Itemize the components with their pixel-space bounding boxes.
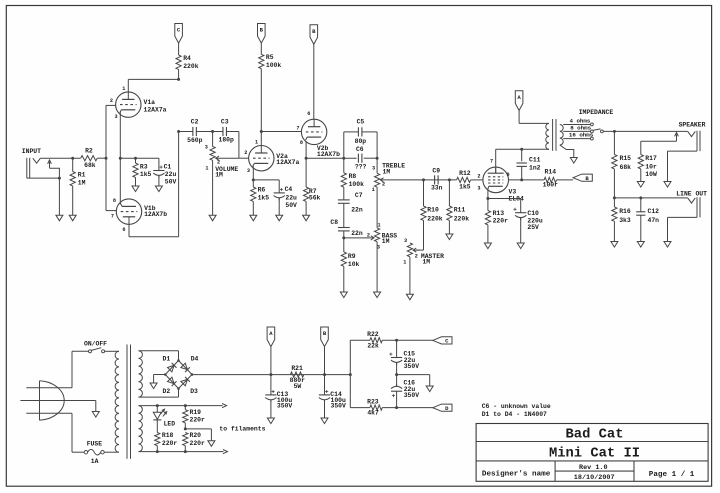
svg-text:6: 6 — [122, 227, 125, 233]
capacitor C10 — [513, 199, 542, 244]
node C11 top — [520, 148, 523, 151]
node R11 top — [448, 178, 451, 181]
wire pole to speaker — [603, 130, 687, 132]
wire mains earth prong — [20, 401, 95, 412]
svg-text:1: 1 — [205, 166, 208, 172]
pin 8 V1b — [113, 198, 116, 204]
svg-text:33n: 33n — [431, 184, 443, 191]
svg-text:1k5: 1k5 — [459, 183, 471, 190]
capacitor C14 — [319, 375, 346, 418]
svg-text:LINE OUT: LINE OUT — [676, 190, 707, 197]
svg-text:R14: R14 — [545, 168, 557, 175]
resistor R17 — [638, 141, 657, 181]
pin 2 V1a — [110, 98, 113, 104]
svg-text:18/10/2007: 18/10/2007 — [574, 474, 615, 482]
diode D1 — [163, 356, 177, 372]
svg-text:R5: R5 — [266, 54, 274, 61]
resistor R4 — [176, 43, 199, 79]
potentiometer MASTER — [407, 243, 444, 294]
wire C5 loop — [344, 132, 377, 158]
node R10 top — [422, 178, 425, 181]
potentiometer BASS — [368, 228, 398, 292]
capacitor C9 — [431, 167, 443, 191]
wire cathode follower out — [306, 157, 357, 159]
svg-text:1: 1 — [122, 86, 125, 92]
svg-text:C10: C10 — [527, 210, 539, 217]
wire C2 to C3 — [196, 131, 223, 133]
resistor R7 — [304, 158, 321, 215]
capacitor C6 — [355, 146, 367, 170]
terminal C filter — [433, 337, 452, 345]
node plate/C2 — [177, 130, 180, 133]
svg-text:2: 2 — [244, 150, 247, 156]
resistor R1 — [70, 158, 86, 215]
title Mini Cat II — [549, 445, 640, 461]
ground R7 — [303, 215, 310, 221]
transformer OT core — [553, 119, 556, 151]
wire HT bottom to bridge — [139, 389, 179, 398]
pin 2 TREBLE — [382, 181, 385, 187]
wire input tip to R2 — [40, 157, 80, 159]
pin 7 V1b — [111, 213, 114, 219]
resistor R14 — [543, 168, 559, 188]
svg-text:22n: 22n — [351, 206, 363, 213]
svg-text:10r: 10r — [645, 163, 657, 170]
svg-text:C1: C1 — [164, 163, 172, 170]
svg-text:R8: R8 — [349, 173, 357, 180]
wire V1a grid — [106, 104, 116, 106]
wire V1b grid — [106, 210, 116, 212]
wire heater bottom — [139, 449, 228, 453]
ground OT secondary — [570, 158, 577, 164]
ground R9 — [340, 292, 347, 298]
svg-text:100k: 100k — [266, 62, 282, 69]
node cathode/R3 — [134, 157, 137, 160]
svg-text:C8: C8 — [330, 219, 338, 226]
pin 6 V1b — [122, 227, 125, 233]
ground C14 — [321, 418, 328, 424]
ground R6 — [250, 215, 257, 221]
wire R22 to C — [382, 339, 433, 342]
pin 7 V2b — [296, 125, 299, 131]
wire V3 plate to OT — [496, 149, 546, 173]
wire line out row — [613, 196, 688, 199]
svg-text:22k: 22k — [367, 343, 379, 350]
svg-text:350V: 350V — [277, 403, 293, 410]
svg-text:3: 3 — [377, 244, 380, 250]
contact 16 ohms — [591, 137, 594, 140]
svg-text:1: 1 — [255, 140, 258, 146]
resistor R20 — [183, 432, 205, 452]
wire jack sleeve — [27, 177, 61, 216]
pin 1 V2a — [255, 140, 258, 146]
svg-text:R9: R9 — [348, 253, 356, 260]
svg-text:68k: 68k — [84, 162, 96, 169]
svg-text:C3: C3 — [221, 118, 229, 125]
svg-text:IMPEDANCE: IMPEDANCE — [579, 109, 614, 116]
terminal D filter — [433, 404, 452, 412]
wire heater top — [139, 403, 227, 407]
capacitor C2 — [187, 118, 203, 143]
wire neutral to fuse — [72, 413, 84, 452]
svg-text:R16: R16 — [619, 208, 631, 215]
wire OT primary bottom — [546, 148, 549, 150]
resistor R23 — [367, 399, 382, 417]
ground R3 — [132, 186, 139, 192]
capacitor C13 — [265, 375, 292, 418]
svg-text:3k3: 3k3 — [619, 217, 631, 224]
svg-text:25V: 25V — [527, 224, 539, 231]
svg-text:12AX7a: 12AX7a — [144, 107, 167, 114]
svg-text:68k: 68k — [620, 164, 632, 171]
svg-text:9: 9 — [506, 172, 509, 178]
svg-text:220r: 220r — [162, 440, 178, 447]
svg-text:100r: 100r — [543, 182, 559, 189]
wire HT top to bridge — [139, 351, 179, 361]
node R15 top — [613, 130, 616, 133]
wire bridge minus — [154, 375, 166, 384]
wire B down — [323, 347, 326, 377]
fuse FUSE 1A — [84, 441, 104, 466]
pin 1 MASTER — [403, 259, 406, 265]
svg-text:10k: 10k — [348, 261, 360, 268]
ground VOLUME — [209, 215, 216, 221]
resistor R15 — [612, 131, 631, 198]
title Bad Cat — [566, 427, 624, 443]
ground R1 — [69, 215, 76, 221]
svg-text:180p: 180p — [219, 137, 235, 144]
svg-text:22u: 22u — [285, 195, 297, 202]
label to filaments — [219, 425, 265, 432]
svg-text:Designer's name: Designer's name — [482, 471, 551, 479]
svg-text:3: 3 — [247, 168, 250, 174]
terminal B screen — [573, 174, 592, 182]
pin 7 V3 — [490, 158, 493, 164]
svg-text:1A: 1A — [91, 458, 99, 465]
pin 3 BASS — [377, 244, 380, 250]
wire R14 to B — [557, 179, 574, 181]
svg-text:220r: 220r — [190, 440, 206, 447]
svg-text:8: 8 — [300, 140, 303, 146]
svg-text:1M: 1M — [215, 172, 223, 179]
svg-text:FUSE: FUSE — [87, 441, 103, 448]
svg-text:INPUT: INPUT — [22, 148, 41, 155]
title designer — [482, 471, 551, 479]
diode D4 — [181, 356, 199, 373]
pin 9 V3 — [506, 172, 509, 178]
svg-text:SPEAKER: SPEAKER — [679, 121, 706, 128]
svg-text:R19: R19 — [190, 409, 202, 416]
svg-text:560p: 560p — [187, 137, 203, 144]
pin 2 BASS — [367, 233, 370, 239]
label IMPEDANCE — [579, 109, 614, 116]
transformer PT heater secondary — [139, 406, 143, 452]
line out jack — [688, 197, 700, 217]
pin 8 V2b — [300, 140, 303, 146]
svg-text:C6: C6 — [356, 146, 364, 153]
wire line out sleeve — [668, 217, 698, 241]
ground C12 — [637, 242, 644, 248]
svg-text:3: 3 — [114, 114, 117, 120]
svg-text:1n2: 1n2 — [529, 164, 541, 171]
resistor R11 — [447, 180, 469, 234]
ground bridge — [150, 383, 157, 389]
diode D2 — [163, 377, 177, 395]
wire R2 to grid bus — [97, 157, 107, 160]
resistor R16 — [612, 198, 631, 242]
node C8/bass — [342, 236, 345, 239]
wire bridge to filter — [192, 374, 350, 376]
note diodes — [482, 411, 547, 418]
wire cap midpoint to ground — [397, 375, 430, 386]
svg-text:3: 3 — [372, 165, 375, 171]
resistor R6 — [251, 180, 270, 215]
svg-text:D3: D3 — [190, 388, 198, 395]
svg-text:Rev 1.0: Rev 1.0 — [579, 464, 608, 472]
svg-text:R22: R22 — [367, 331, 379, 338]
svg-text:C11: C11 — [529, 156, 541, 163]
capacitor C5 — [355, 118, 367, 145]
svg-text:4k7: 4k7 — [367, 410, 379, 417]
ground jack sleeve — [56, 215, 63, 221]
mains plug — [40, 381, 65, 421]
switch ON/OFF — [89, 348, 120, 353]
svg-text:2: 2 — [415, 253, 418, 259]
svg-text:8: 8 — [113, 198, 116, 204]
svg-text:R20: R20 — [190, 432, 202, 439]
terminal B above V2b — [310, 25, 318, 45]
triode V2a — [249, 146, 300, 171]
svg-text:R10: R10 — [427, 206, 439, 213]
wire C6 right — [364, 157, 377, 159]
wire V3 screen to R14 — [509, 179, 545, 181]
pin 2 V3 — [477, 173, 480, 179]
svg-text:R1: R1 — [78, 171, 86, 178]
svg-text:7: 7 — [111, 213, 114, 219]
svg-text:R21: R21 — [291, 365, 303, 372]
node tone stack right — [376, 157, 379, 160]
pin 6 V2b — [307, 111, 310, 117]
svg-text:220k: 220k — [454, 215, 470, 222]
LED D5 — [153, 406, 175, 433]
node input/R1 — [71, 157, 74, 160]
capacitor C1 — [153, 158, 176, 186]
wire tap 16 ohms — [563, 132, 594, 139]
ground R17 — [637, 182, 644, 188]
transformer PT HT secondary — [139, 351, 143, 397]
pin 2 VOLUME — [217, 160, 220, 166]
wire R22 row — [350, 339, 370, 341]
resistor R12 — [457, 170, 471, 190]
terminal A filter — [267, 327, 275, 347]
svg-text:220r: 220r — [493, 217, 509, 224]
svg-text:12AX7b: 12AX7b — [317, 151, 340, 158]
wire fuse to PT — [104, 451, 119, 453]
svg-text:ON/OFF: ON/OFF — [84, 340, 107, 347]
svg-text:LED: LED — [164, 421, 176, 428]
svg-text:R3: R3 — [140, 163, 148, 170]
resistor R3 — [133, 158, 152, 186]
svg-text:350V: 350V — [404, 392, 420, 399]
transformer PT primary — [115, 351, 119, 452]
pin 1 V1a — [122, 86, 125, 92]
ground cap midpoint — [426, 386, 433, 392]
svg-text:C7: C7 — [355, 192, 363, 199]
input jack J1 — [22, 148, 41, 178]
jack shorting switch arrow — [48, 160, 60, 178]
capacitor C16 — [391, 375, 419, 408]
node C11 bottom — [520, 178, 523, 181]
ground R16 — [611, 242, 618, 248]
svg-text:7: 7 — [490, 158, 493, 164]
svg-text:C9: C9 — [432, 167, 440, 174]
wire V2b cathode — [305, 141, 308, 160]
svg-text:5W: 5W — [294, 383, 302, 390]
svg-text:C12: C12 — [648, 208, 660, 215]
contact 4 ohms — [591, 123, 594, 126]
ground C1 — [155, 186, 162, 192]
svg-text:???: ??? — [355, 163, 367, 170]
svg-text:220r: 220r — [190, 417, 206, 424]
triode V1b — [116, 199, 167, 224]
title rev — [579, 464, 608, 472]
svg-text:C6 - unknown value: C6 - unknown value — [482, 403, 551, 410]
ground R11 — [446, 234, 453, 240]
wire V3 cathode — [486, 189, 520, 200]
svg-text:1M: 1M — [422, 258, 430, 265]
wire A to OT primary — [519, 110, 549, 123]
transformer OT primary — [546, 123, 549, 149]
pin 3 VOLUME — [205, 145, 208, 151]
wire R23 to D — [382, 406, 433, 409]
pin 3 V2a — [247, 168, 250, 174]
ground speaker sleeve — [664, 182, 671, 188]
svg-text:R15: R15 — [620, 155, 632, 162]
ground C10 — [517, 243, 524, 249]
pin 2 V2a — [244, 150, 247, 156]
svg-text:220k: 220k — [427, 215, 443, 222]
svg-text:R23: R23 — [367, 399, 379, 406]
svg-text:D4: D4 — [191, 356, 199, 363]
svg-text:R4: R4 — [183, 55, 191, 62]
wire live to switch — [72, 351, 89, 387]
ground C4 — [276, 215, 283, 221]
transformer OT secondary — [560, 125, 563, 146]
pin 2 MASTER — [415, 253, 418, 259]
node R19/R20 — [184, 427, 187, 430]
wire V2a cathode — [252, 166, 255, 181]
ground C13 — [267, 418, 274, 424]
pin 3 V1a — [114, 114, 117, 120]
potentiometer TREBLE — [375, 158, 406, 228]
resistor R10 — [421, 180, 443, 250]
pin 3 MASTER — [404, 238, 407, 244]
svg-text:12AX7b: 12AX7b — [144, 211, 167, 218]
resistor R19 — [183, 406, 205, 429]
svg-text:1k5: 1k5 — [258, 195, 270, 202]
svg-text:4 ohms: 4 ohms — [570, 117, 591, 124]
terminal C top — [175, 24, 183, 44]
svg-text:R12: R12 — [459, 170, 471, 177]
ground mains earth — [92, 412, 99, 418]
transformer PT core — [127, 345, 131, 459]
svg-text:D2: D2 — [163, 388, 171, 395]
terminal B above R5 — [258, 24, 266, 44]
svg-text:to filaments: to filaments — [219, 425, 265, 432]
svg-text:R18: R18 — [162, 432, 174, 439]
svg-text:R17: R17 — [645, 155, 657, 162]
svg-text:1: 1 — [403, 259, 406, 265]
node filter split — [349, 373, 352, 376]
svg-text:2: 2 — [477, 173, 480, 179]
wire plate to C2 — [179, 131, 193, 133]
capacitor C8 — [330, 219, 362, 252]
svg-text:2: 2 — [367, 233, 370, 239]
svg-text:R6: R6 — [258, 187, 266, 194]
svg-text:10W: 10W — [645, 171, 657, 178]
svg-text:R11: R11 — [454, 206, 466, 213]
svg-text:D1 to D4 - 1N4007: D1 to D4 - 1N4007 — [482, 411, 547, 418]
node volume top — [211, 130, 214, 133]
pin 3 TREBLE — [372, 165, 375, 171]
pentode V3 — [483, 167, 524, 202]
svg-text:Mini Cat II: Mini Cat II — [549, 445, 640, 461]
ground R13 — [484, 243, 491, 249]
ground LED branch — [208, 441, 215, 447]
capacitor C15 — [389, 340, 419, 374]
svg-text:56k: 56k — [309, 195, 321, 202]
ground MASTER — [406, 294, 413, 300]
wire cathode node — [120, 157, 159, 159]
svg-text:D1: D1 — [163, 356, 171, 363]
svg-text:R2: R2 — [85, 147, 93, 154]
diode D3 — [181, 377, 198, 395]
svg-text:Bad Cat: Bad Cat — [566, 427, 624, 443]
capacitor C12 — [636, 198, 659, 242]
wire mains neutral prong — [26, 412, 72, 414]
svg-text:3: 3 — [205, 145, 208, 151]
svg-text:50V: 50V — [165, 178, 177, 185]
wire OT secondary bottom — [560, 145, 574, 158]
wire V1b plate return — [129, 132, 179, 237]
svg-text:C4: C4 — [285, 186, 293, 193]
svg-text:220k: 220k — [183, 63, 199, 70]
svg-text:1k5: 1k5 — [140, 171, 152, 178]
svg-text:1M: 1M — [382, 238, 390, 245]
svg-text:Page 1 / 1: Page 1 / 1 — [649, 471, 695, 479]
wire B to V2b plate — [313, 44, 315, 119]
capacitor C4 — [253, 180, 297, 215]
svg-text:350V: 350V — [331, 403, 347, 410]
note C6 — [482, 403, 551, 410]
node tone stack left — [342, 157, 345, 160]
terminal A above OT — [515, 91, 523, 111]
pin 3 V3 — [477, 186, 480, 192]
svg-text:3: 3 — [477, 186, 480, 192]
resistor R21 — [290, 365, 306, 390]
wire R12 to V3 grid — [471, 179, 483, 181]
node cap midpoint — [395, 373, 398, 376]
label SPEAKER — [679, 121, 706, 128]
speaker jack — [688, 131, 700, 151]
resistor R9 — [341, 252, 359, 292]
label LINE OUT — [676, 190, 707, 197]
svg-text:8 ohms: 8 ohms — [570, 124, 591, 131]
pin 1 BASS — [377, 222, 380, 228]
wire C3 to grid — [227, 132, 249, 159]
capacitor C7 — [338, 192, 363, 228]
capacitor C11 — [517, 149, 541, 180]
